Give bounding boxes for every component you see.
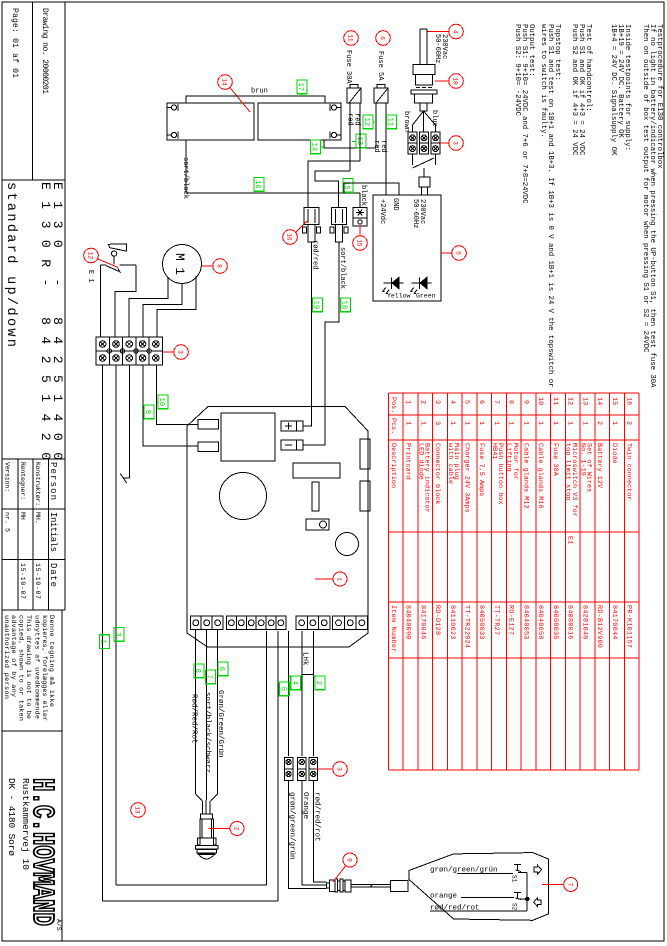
arrow up xyxy=(534,865,542,874)
svg-text:11: 11 xyxy=(386,118,394,126)
balloon 8 motor xyxy=(213,259,228,274)
wire twin B to printcard minus xyxy=(303,242,339,445)
svg-text:7: 7 xyxy=(205,675,213,679)
svg-text:13: 13 xyxy=(580,397,588,405)
svg-text:8: 8 xyxy=(216,264,223,268)
svg-text:Fuse 5A: Fuse 5A xyxy=(376,51,384,81)
svg-text:11: 11 xyxy=(347,34,354,42)
balloon 13 wire set xyxy=(131,803,146,818)
svg-text:6: 6 xyxy=(477,400,485,404)
svg-text:nr. 5: nr. 5 xyxy=(4,512,11,532)
twin connector A (pos 16) xyxy=(303,208,321,243)
svg-text:1: 1 xyxy=(336,577,343,581)
leader balloon 1 xyxy=(315,578,333,580)
svg-text:Connector block: Connector block xyxy=(433,443,441,505)
svg-text:17: 17 xyxy=(296,83,304,91)
mains cord 230V xyxy=(420,29,427,65)
fuse F1 30A holder xyxy=(347,85,361,104)
svg-text:2: 2 xyxy=(233,827,240,831)
leader balloon 3 mains xyxy=(440,142,450,144)
svg-text:1: 1 xyxy=(522,421,530,425)
card small circle xyxy=(336,533,359,556)
svg-text:12: 12 xyxy=(362,118,370,126)
wires card to lower connector block xyxy=(289,631,314,756)
charger (pos 5) xyxy=(373,195,441,301)
svg-text:1: 1 xyxy=(463,421,471,425)
svg-text:9: 9 xyxy=(143,410,151,414)
svg-text:Charger 24V 3Amps: Charger 24V 3Amps xyxy=(463,443,471,513)
svg-text:red: red xyxy=(346,113,354,126)
card fuse plus box xyxy=(281,421,303,431)
svg-text:16: 16 xyxy=(286,233,293,241)
wire t5 to card xyxy=(157,365,199,425)
svg-text:84050033: 84050033 xyxy=(477,605,485,639)
svg-text:RO-E127: RO-E127 xyxy=(507,605,515,635)
wire diode black xyxy=(359,193,361,208)
svg-text:7: 7 xyxy=(566,883,573,887)
svg-text:Printcard: Printcard xyxy=(404,443,412,480)
svg-text:red: red xyxy=(379,140,387,153)
wire to twin connector A xyxy=(308,161,360,207)
svg-text:7: 7 xyxy=(492,400,500,404)
svg-text:Konstruktør:: Konstruktør: xyxy=(34,462,41,506)
svg-text:RD-D128: RD-D128 xyxy=(433,605,441,635)
svg-text:15: 15 xyxy=(610,397,618,405)
svg-text:Green: Green xyxy=(416,293,436,300)
svg-text:LED diode: LED diode xyxy=(416,443,424,480)
label 230Vac mains xyxy=(433,34,448,63)
balloon 5 charger xyxy=(452,246,467,261)
svg-text:rød/red/rot: rød/red/rot xyxy=(312,792,320,842)
balloon 9 plug xyxy=(343,853,357,867)
page number text xyxy=(10,8,19,78)
card big capacitor circle xyxy=(220,473,267,520)
card connector 2 xyxy=(198,442,219,452)
svg-text:Battery 12V: Battery 12V xyxy=(595,443,603,489)
wires block to plug xyxy=(289,780,327,889)
svg-text:E 1: E 1 xyxy=(86,270,94,283)
svg-text:1: 1 xyxy=(507,421,515,425)
wire brun battery link xyxy=(186,96,325,103)
svg-text:19: 19 xyxy=(312,301,320,309)
wire tag 19 xyxy=(312,298,323,312)
leader balloon 8 xyxy=(202,265,214,267)
svg-text:4: 4 xyxy=(452,30,459,34)
svg-text:Fuse 30A: Fuse 30A xyxy=(551,443,559,477)
person/initials/date table text xyxy=(4,462,59,599)
svg-text:sort/black: sort/black xyxy=(338,247,346,289)
svg-text:10: 10 xyxy=(157,398,165,406)
leader balloon 3 block xyxy=(163,351,175,353)
svg-text:A/S: A/S xyxy=(55,919,62,931)
svg-text:Rød/Red/Rot: Rød/Red/Rot xyxy=(190,694,198,744)
svg-text:Yellow: Yellow xyxy=(387,293,411,300)
wire t4 to card xyxy=(143,365,198,446)
twin connector B (pos 16) xyxy=(330,208,348,243)
svg-text:50-60Hz: 50-60Hz xyxy=(411,199,419,228)
svg-text:GND: GND xyxy=(391,198,399,211)
wire tag 8 xyxy=(193,664,204,678)
terminal block 5x (pos 3) xyxy=(96,337,163,365)
company logo H.C.HOVMAND xyxy=(6,778,62,931)
svg-text:Description: Description xyxy=(389,443,397,488)
svg-text:2: 2 xyxy=(595,421,603,425)
wires fuse 30A output xyxy=(350,103,360,171)
svg-text:3: 3 xyxy=(452,141,459,145)
svg-text:4: 4 xyxy=(448,400,456,404)
svg-text:Pos.: Pos. xyxy=(389,397,397,413)
balloon 16 twin connector xyxy=(283,230,298,245)
wire tag 10 xyxy=(157,395,169,409)
charger terminal labels xyxy=(378,198,426,228)
wire tag 15 xyxy=(342,179,353,194)
handcontrol labels xyxy=(430,867,527,913)
svg-text:15-10-07: 15-10-07 xyxy=(34,563,41,599)
svg-text:TT-TR22024: TT-TR22024 xyxy=(463,605,471,648)
svg-text:12: 12 xyxy=(566,397,574,405)
card fuse box 2 xyxy=(281,440,303,450)
svg-text:+24Vdc: +24Vdc xyxy=(378,199,386,224)
svg-text:S2: S2 xyxy=(511,903,518,911)
svg-text:1: 1 xyxy=(610,421,618,425)
svg-text:6: 6 xyxy=(379,36,386,40)
svg-text:1: 1 xyxy=(99,639,107,643)
svg-text:14: 14 xyxy=(221,78,228,86)
parts list table xyxy=(388,393,639,770)
svg-text:4: 4 xyxy=(290,681,298,685)
svg-text:Then on outside of box test ou: Then on outside of box test output for m… xyxy=(641,24,649,353)
svg-text:Push S2 and OK if 4+3 = 24 VDC: Push S2 and OK if 4+3 = 24 VDC xyxy=(570,24,578,156)
title block dividers xyxy=(2,2,65,941)
wire twin A to printcard plus xyxy=(303,242,312,426)
balloon 2 indicator xyxy=(230,822,244,836)
wires cord fan-out xyxy=(413,111,436,132)
wire tag 6 xyxy=(217,662,228,676)
svg-text:DK - 4180 Sorø: DK - 4180 Sorø xyxy=(6,778,17,856)
fuse F2 5A holder xyxy=(374,85,388,104)
svg-text:15: 15 xyxy=(356,239,363,247)
wire tag 13 xyxy=(352,134,366,148)
leader line balloon 14 xyxy=(230,87,251,112)
svg-text:84040053: 84040053 xyxy=(522,605,530,639)
svg-text:84110023: 84110023 xyxy=(448,605,456,639)
svg-text:E130R- 84251420: E130R- 84251420 xyxy=(38,182,53,460)
svg-text:sort/block: sort/block xyxy=(181,157,189,199)
wire tag 4 xyxy=(289,676,301,690)
svg-text:18: 18 xyxy=(340,301,348,309)
balloon 11 fuse 30A xyxy=(344,31,359,46)
plug (pos 9) xyxy=(327,879,352,892)
mains terminal block (pos 3) xyxy=(408,132,440,154)
svg-text:Orange: Orange xyxy=(301,792,309,819)
svg-text:84050035: 84050035 xyxy=(551,605,559,639)
balloon 3 lower block xyxy=(333,762,348,777)
svg-text:1: 1 xyxy=(448,421,456,425)
disclaimer text xyxy=(2,615,56,721)
leader balloon 15 xyxy=(359,226,361,237)
svg-text:8: 8 xyxy=(193,669,201,673)
svg-text:10: 10 xyxy=(536,397,544,405)
svg-text:3: 3 xyxy=(177,350,184,354)
balloon 6 fuse 5A xyxy=(376,31,391,46)
svg-text:84080016: 84080016 xyxy=(566,605,574,639)
leader balloon 9 xyxy=(333,866,346,882)
card component rect small xyxy=(312,482,319,511)
svg-text:1: 1 xyxy=(551,421,559,425)
svg-text:13: 13 xyxy=(134,806,141,814)
svg-text:E1: E1 xyxy=(566,536,574,544)
svg-text:Cable glands M16: Cable glands M16 xyxy=(536,443,544,509)
svg-text:brown: brown xyxy=(402,111,410,132)
balloon 12 E1 xyxy=(84,248,99,263)
svg-text:Version:: Version: xyxy=(4,462,11,492)
svg-text:84040090: 84040090 xyxy=(404,605,412,639)
svg-text:10: 10 xyxy=(452,77,459,85)
card relay rect xyxy=(293,463,340,478)
svg-text:6: 6 xyxy=(217,667,225,671)
E1 switch contact and wires xyxy=(101,265,137,337)
svg-text:15-10-07: 15-10-07 xyxy=(19,563,26,599)
svg-text:2: 2 xyxy=(418,400,426,404)
wire tag 17 xyxy=(296,80,307,96)
wire fuse 5A left xyxy=(375,103,377,148)
leader balloon 12 xyxy=(98,259,118,268)
svg-text:TT-TR27: TT-TR27 xyxy=(492,605,500,635)
svg-text:No. 1-19: No. 1-19 xyxy=(578,443,586,476)
svg-text:Twin connector: Twin connector xyxy=(625,443,633,500)
svg-text:13: 13 xyxy=(355,137,363,145)
svg-text:red: red xyxy=(353,113,361,126)
wire tag 5 xyxy=(278,682,289,696)
svg-text:with cable: with cable xyxy=(446,443,454,484)
svg-text:14: 14 xyxy=(310,143,318,151)
svg-text:Person: Person xyxy=(48,462,58,500)
svg-text:1: 1 xyxy=(477,421,485,425)
wire sort/black rail xyxy=(186,140,360,193)
svg-text:1: 1 xyxy=(580,421,588,425)
card connector 1 xyxy=(198,420,219,430)
svg-text:3: 3 xyxy=(113,632,121,636)
svg-text:1: 1 xyxy=(566,421,574,425)
svg-text:8: 8 xyxy=(507,400,515,404)
switch S1 symbol xyxy=(511,865,528,883)
card transformer xyxy=(221,413,275,461)
svg-text:Lifting: Lifting xyxy=(505,443,513,472)
svg-text:84281040: 84281040 xyxy=(580,605,588,639)
cable gland (pos 10) xyxy=(411,65,437,112)
charger LED green xyxy=(410,277,431,293)
leader balloon 2 xyxy=(209,828,231,830)
balloon 1 printcard xyxy=(333,572,347,586)
svg-text:RD-B12V900: RD-B12V900 xyxy=(595,605,603,648)
svg-text:red: red xyxy=(372,140,380,153)
diode D1 (pos 15) xyxy=(353,208,367,227)
svg-text:1: 1 xyxy=(404,400,412,404)
svg-text:udnyttes af uvedkommende: udnyttes af uvedkommende xyxy=(32,615,40,719)
svg-text:Fuse 30A: Fuse 30A xyxy=(344,50,352,84)
svg-text:12: 12 xyxy=(87,252,94,260)
svg-text:MH: MH xyxy=(19,512,26,520)
svg-text:Drawing no. 20000201: Drawing no. 20000201 xyxy=(40,8,49,94)
parts list table text xyxy=(389,397,633,652)
balloon 7 handcontrol xyxy=(564,878,578,892)
battery B1 (pos 14) xyxy=(167,103,254,140)
balloon 3 mains block xyxy=(449,136,464,151)
wire tag 7 xyxy=(205,670,216,684)
label red red F1 xyxy=(346,113,361,126)
svg-text:Date: Date xyxy=(48,563,58,587)
svg-text:Diode: Diode xyxy=(610,443,618,464)
svg-text:50-60Hz: 50-60Hz xyxy=(433,34,441,63)
card right fuse 2 xyxy=(360,481,370,511)
label LHk xyxy=(301,647,314,674)
wires motor to block xyxy=(129,276,196,337)
wires to battery indicator xyxy=(196,630,218,815)
svg-text:Cable glands M12: Cable glands M12 xyxy=(522,443,530,509)
leader balloon 5 xyxy=(441,252,453,254)
wire tag 1 xyxy=(99,635,110,649)
wire tag 16 xyxy=(253,178,264,194)
svg-text:Pcs.: Pcs. xyxy=(389,418,397,434)
wire battery plus to fuse rail xyxy=(324,140,376,148)
svg-text:top limit stop: top limit stop xyxy=(564,443,572,500)
balloon 10 gland xyxy=(449,74,464,89)
svg-text:Page: 01 af 01: Page: 01 af 01 xyxy=(10,8,19,78)
leader balloon 16 xyxy=(295,221,307,233)
svg-text:brun: brun xyxy=(251,88,268,96)
title: model numbers xyxy=(3,182,65,460)
svg-text:14: 14 xyxy=(595,397,603,405)
svg-text:1: 1 xyxy=(536,421,544,425)
wire tag 18 xyxy=(339,298,351,312)
svg-text:MH.: MH. xyxy=(34,512,41,524)
battery indicator LED (pos 2) xyxy=(196,814,219,859)
balloon 3 terminal block xyxy=(174,345,189,360)
svg-text:16: 16 xyxy=(625,397,633,405)
svg-text:3: 3 xyxy=(336,767,343,771)
mains switch S0 xyxy=(413,154,436,195)
svg-text:84170044: 84170044 xyxy=(610,605,618,639)
svg-text:LHk: LHk xyxy=(301,652,309,666)
svg-text:Fuse 7,5 Amps: Fuse 7,5 Amps xyxy=(477,443,485,496)
svg-text:PR-K101157: PR-K101157 xyxy=(625,605,633,648)
lower connector block (pos 3) xyxy=(284,758,317,781)
svg-text:84040058: 84040058 xyxy=(536,605,544,639)
svg-text:5: 5 xyxy=(455,251,462,255)
wire to twin connector B xyxy=(315,171,350,207)
svg-text:16: 16 xyxy=(253,180,261,188)
svg-text:1: 1 xyxy=(418,421,426,425)
leader balloon 10 xyxy=(435,80,450,82)
card terminal strip xyxy=(190,616,367,630)
drawing number text xyxy=(40,8,49,94)
svg-text:Push S2: 9+10= -24VDC: Push S2: 9+10= -24VDC xyxy=(513,24,521,117)
handcontrol cable xyxy=(351,881,408,892)
wire GND to charger xyxy=(344,183,399,195)
wire tag 14 xyxy=(310,140,324,154)
arrow down xyxy=(534,898,542,907)
wire tag 11 xyxy=(386,115,397,129)
svg-text:1B+4 = 24V DC. Signalsupply OK: 1B+4 = 24V DC. Signalsupply OK xyxy=(609,24,617,156)
svg-text:Grøn/Green/Grün: Grøn/Green/Grün xyxy=(216,690,224,758)
svg-text:Rustkammervej 10: Rustkammervej 10 xyxy=(20,778,31,870)
test procedure notes xyxy=(513,24,663,388)
card component with hole xyxy=(306,519,329,530)
svg-text:84170046: 84170046 xyxy=(418,605,426,639)
svg-text:5: 5 xyxy=(463,400,471,404)
motor M1 (pos 8) xyxy=(163,245,202,284)
svg-text:unauthorized person: unauthorized person xyxy=(2,615,10,699)
bracket line xyxy=(526,873,530,912)
svg-text:Initials: Initials xyxy=(48,512,58,552)
balloon 4 mains xyxy=(449,24,464,39)
wire t1 long loop xyxy=(103,365,279,901)
leader balloon 4 xyxy=(428,31,450,33)
svg-text:5: 5 xyxy=(278,687,286,691)
svg-text:2: 2 xyxy=(314,681,322,685)
wire tag 2 xyxy=(313,676,325,690)
printcard outline (pos 1) xyxy=(187,407,368,648)
wire tag 12 xyxy=(362,115,376,129)
wire t3 with topstop switch blade xyxy=(120,365,129,483)
svg-text:3: 3 xyxy=(433,400,441,404)
microswitch E1 (pos 12) xyxy=(108,244,126,265)
svg-text:1: 1 xyxy=(492,421,500,425)
svg-text:Rentegner:: Rentegner: xyxy=(19,462,26,500)
wire tag 9 xyxy=(143,405,154,419)
balloon 15 diode xyxy=(353,236,368,251)
svg-text:black: black xyxy=(359,185,367,206)
balloon 14 battery xyxy=(218,75,233,90)
leader balloon 7 xyxy=(542,883,564,885)
svg-text:9: 9 xyxy=(522,400,530,404)
switch S2 symbol xyxy=(511,893,528,911)
card right fuse 1 xyxy=(360,439,370,469)
svg-text:HB41: HB41 xyxy=(490,443,498,459)
svg-text:blue: blue xyxy=(430,110,438,127)
wire fuse 5A right to charger xyxy=(385,103,387,195)
svg-text:orange: orange xyxy=(430,893,457,901)
svg-text:15: 15 xyxy=(342,181,350,189)
svg-text:11: 11 xyxy=(551,397,559,405)
svg-text:sort/black/schwarz: sort/black/schwarz xyxy=(203,692,211,773)
wire t2 loop xyxy=(116,365,267,885)
svg-text:1: 1 xyxy=(404,421,412,425)
label red red F2 xyxy=(372,140,387,153)
leader balloon 3 lower xyxy=(316,768,333,770)
svg-text:Item Number: Item Number xyxy=(389,605,397,652)
svg-text:S1: S1 xyxy=(511,875,518,883)
svg-text:2: 2 xyxy=(625,421,633,425)
svg-text:rød/red: rød/red xyxy=(311,240,319,269)
svg-text:grøn/green/grün: grøn/green/grün xyxy=(288,792,296,860)
battery B2 (pos 14) xyxy=(258,103,341,140)
svg-text:3: 3 xyxy=(433,421,441,425)
wire tag 3 xyxy=(113,628,124,642)
svg-text:wires to switch is faulty.: wires to switch is faulty. xyxy=(539,24,547,138)
svg-text:9: 9 xyxy=(346,858,353,862)
handcontrol box (pos 7) xyxy=(409,853,549,921)
charger LED yellow xyxy=(382,277,403,293)
